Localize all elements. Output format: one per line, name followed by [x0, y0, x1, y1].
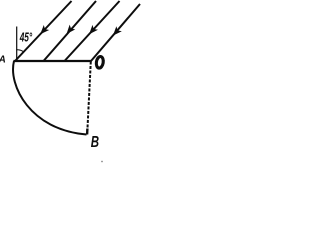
quarter arc AB: [13, 61, 86, 135]
surface line AO: [14, 60, 92, 62]
vertical reference line at A: [16, 27, 18, 61]
arrowhead ray 1: [37, 25, 49, 37]
incident ray 1: [16, 1, 72, 61]
incident ray 2: [44, 1, 97, 61]
node B tick: [86, 129, 89, 135]
dashed line OB: [87, 62, 90, 131]
svg-text:45°: 45°: [19, 31, 33, 45]
incident ray 3: [65, 1, 120, 61]
speck: [101, 161, 102, 162]
arrowhead ray 2: [64, 25, 76, 37]
svg-text:B: B: [91, 132, 99, 150]
arrowhead ray 4: [110, 26, 122, 38]
svg-text:A: A: [0, 54, 6, 65]
incident ray 4: [91, 4, 140, 61]
node O label: [96, 56, 105, 69]
angle marker 45 deg: [16, 50, 23, 52]
arrowhead ray 3: [86, 25, 98, 37]
